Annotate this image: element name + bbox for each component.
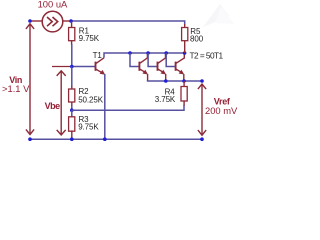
svg-text:Vbe: Vbe — [45, 101, 61, 111]
node dot R2/R3/R4 junction — [70, 108, 74, 112]
node dot R4 top — [182, 79, 186, 83]
transistor T2b — [146, 51, 166, 81]
resistor R3 9.75K — [69, 110, 75, 139]
resistor R2 50.25K — [69, 86, 75, 106]
wire: mid node to R4 bottom — [72, 105, 184, 111]
svg-text:9.75K: 9.75K — [78, 122, 99, 131]
node dot T1 emitter ground — [103, 137, 107, 141]
svg-text:100 uA: 100 uA — [38, 0, 68, 10]
transistor T1 — [96, 58, 106, 75]
node dot emitter2 — [164, 79, 168, 83]
node dot base of T1 — [70, 65, 74, 69]
resistor R5 800 — [182, 24, 188, 53]
Vbe tick — [52, 66, 70, 68]
node dot R5 bottom — [183, 51, 187, 55]
svg-text:T2 = 50T1: T2 = 50T1 — [190, 50, 224, 60]
svg-text:200 mV: 200 mV — [205, 105, 238, 116]
node dot at R1 top — [69, 19, 73, 23]
wire: top rail from current source to R5 corner — [71, 21, 185, 25]
node dot ground left — [28, 137, 32, 141]
wire: T1 emitter down to ground — [104, 74, 106, 139]
wire: collector rail — [130, 52, 185, 54]
Vbe arrow — [57, 71, 66, 135]
transistor T2c — [164, 51, 184, 81]
node dot R3 bottom — [70, 137, 74, 141]
svg-text:T1: T1 — [93, 51, 103, 60]
wire: emitter rail — [148, 80, 202, 81]
wire: base node to T1 base — [72, 66, 95, 68]
wire: right lead of current source — [63, 20, 71, 22]
wire: R2 bottom to mid node — [71, 106, 73, 111]
wire: R1 bottom to base node — [71, 44, 73, 67]
watermark logo — [203, 4, 234, 27]
resistor R4 3.75K — [181, 81, 187, 106]
node dot Vref top — [200, 79, 204, 83]
transistor T2a — [128, 51, 148, 81]
Vin arrow — [26, 24, 34, 135]
svg-text:800: 800 — [190, 34, 204, 43]
current source I1 100uA — [42, 11, 63, 32]
wire: T1 collector to rail — [104, 53, 130, 58]
svg-text:50.25K: 50.25K — [78, 95, 104, 104]
wire: left lead of current source — [30, 20, 42, 22]
Vref arrow — [198, 84, 206, 135]
node dot top-left — [28, 19, 32, 23]
node dot ground right — [200, 137, 204, 141]
svg-text:3.75K: 3.75K — [155, 95, 176, 104]
svg-text:9.75K: 9.75K — [79, 34, 100, 43]
wire: ground rail — [30, 138, 202, 140]
resistor R1 9.75K — [69, 21, 75, 45]
svg-text:>1.1 V: >1.1 V — [2, 83, 30, 94]
wire: base node down to R2 — [71, 67, 73, 88]
